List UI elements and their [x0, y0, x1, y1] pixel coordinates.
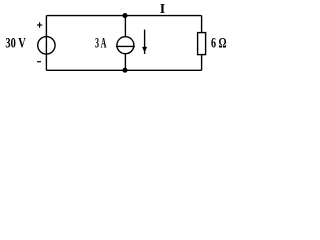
- voltage source V1 circle: [38, 37, 55, 54]
- wire left branch: [45, 16, 47, 71]
- wire middle branch bottom stub: [124, 54, 126, 71]
- junction node top: [122, 13, 127, 18]
- current arrow of source shaft: [144, 30, 146, 54]
- wire top: [46, 15, 201, 17]
- wire bottom: [46, 69, 201, 71]
- resistor R1 box: [198, 33, 206, 55]
- polarity minus of V1: [37, 61, 41, 63]
- svg-text:30 V: 30 V: [5, 36, 26, 52]
- junction node bottom: [122, 68, 127, 73]
- current source I1 bar: [116, 45, 135, 47]
- wire right branch bottom: [201, 55, 203, 71]
- current source I1 circle: [117, 37, 134, 54]
- svg-text:I: I: [160, 2, 165, 17]
- svg-text:6 Ω: 6 Ω: [211, 36, 227, 52]
- polarity plus of V1: [37, 22, 42, 61]
- wire middle branch top stub: [124, 16, 126, 37]
- current arrow of source head: [142, 47, 147, 53]
- svg-text:3 A: 3 A: [95, 36, 106, 52]
- wire right branch top: [201, 16, 203, 33]
